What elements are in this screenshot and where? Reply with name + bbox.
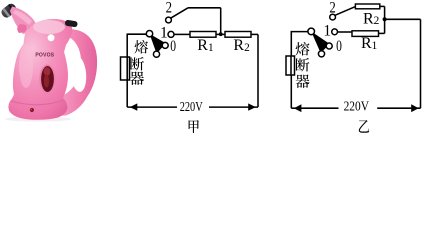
svg-text:0: 0 [336,38,342,55]
svg-text:2: 2 [329,0,335,16]
svg-text:1: 1 [160,25,168,42]
svg-text:220V: 220V [180,99,203,114]
svg-text:POVOS: POVOS [35,52,54,58]
svg-text:0: 0 [170,38,176,55]
svg-text:2: 2 [166,0,172,17]
svg-text:1: 1 [323,23,331,40]
svg-text:220V: 220V [344,98,370,113]
